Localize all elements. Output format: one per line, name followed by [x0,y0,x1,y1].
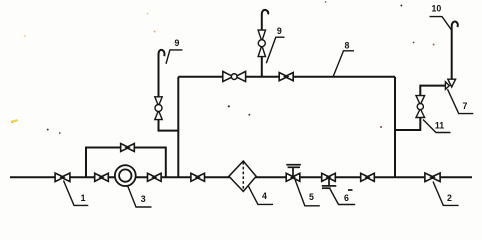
svg-text:8: 8 [344,41,349,51]
valve 11 (vertical bowtie with circle) [416,96,425,118]
svg-text:9: 9 [174,38,179,48]
leader label 4 [248,185,273,204]
pump 3 [115,165,136,186]
leader label 1 [64,181,89,206]
wire left riser (left leg of top loop 8) [177,77,179,178]
relief valve 9 left (vertical bowtie with circle) [155,97,162,120]
valve pump inlet [95,173,109,181]
wire branch from right riser to valve 11 [395,118,420,131]
valve 6 with capped stem [322,173,336,181]
cap bars above valve 5 [292,167,294,177]
funnel 7 (open drain: two nozzle triangles) [445,79,455,89]
leader label 3 [128,186,152,207]
globe valve on line 8 [223,71,246,81]
wire vent pipe of relief valve 9 left with curl [159,50,165,97]
leader label 6 [330,189,355,205]
wire branch to relief valve 9 (right) [261,57,263,77]
svg-text:7: 7 [463,101,468,111]
svg-text:3: 3 [141,194,146,204]
valve before right riser [361,173,375,181]
wire vent pipe of relief valve 9 right with curl [262,10,268,30]
wire stem above valve 11 to funnel [420,86,445,96]
stray dash near label 6 [348,189,353,191]
svg-text:11: 11 [435,120,444,130]
scan speckles [11,1,435,134]
valve after pump section [191,173,205,181]
svg-text:6: 6 [344,193,349,203]
leader label 9 left [166,50,182,64]
wire right riser (right leg of top loop) [394,77,396,178]
wire bypass loop around pump [86,148,166,178]
cap bars below valve 6 [328,177,330,186]
wire top loop line 8 [178,76,395,78]
leader label 7 [448,89,474,113]
valve 1 [55,173,70,182]
valve pump outlet [148,173,162,181]
svg-text:4: 4 [262,191,267,201]
svg-text:10: 10 [432,4,442,14]
leader label 9 right [266,37,284,63]
svg-text:1: 1 [81,193,86,203]
svg-text:5: 5 [309,192,314,202]
valve on line 8 (bowtie) [279,73,293,81]
leader label 10 [430,17,452,30]
svg-text:2: 2 [447,193,452,203]
leader label 8 [333,51,354,77]
svg-text:9: 9 [277,26,282,36]
leader label 5 [295,180,320,206]
wire vent pipe 10 with curl [452,22,458,80]
relief valve 9 right (vertical bowtie with circle) [258,30,265,56]
filter 4 (diamond with dashed element) [229,161,256,191]
valve 2 [425,173,440,182]
valve bypass [121,144,135,152]
wire drain from relief valve 9 left to riser [159,120,179,131]
valve 5 with capped stem [286,173,300,181]
leader label 2 [433,182,459,206]
leader label 11 [423,120,451,133]
wire main suction/discharge line [10,176,472,178]
